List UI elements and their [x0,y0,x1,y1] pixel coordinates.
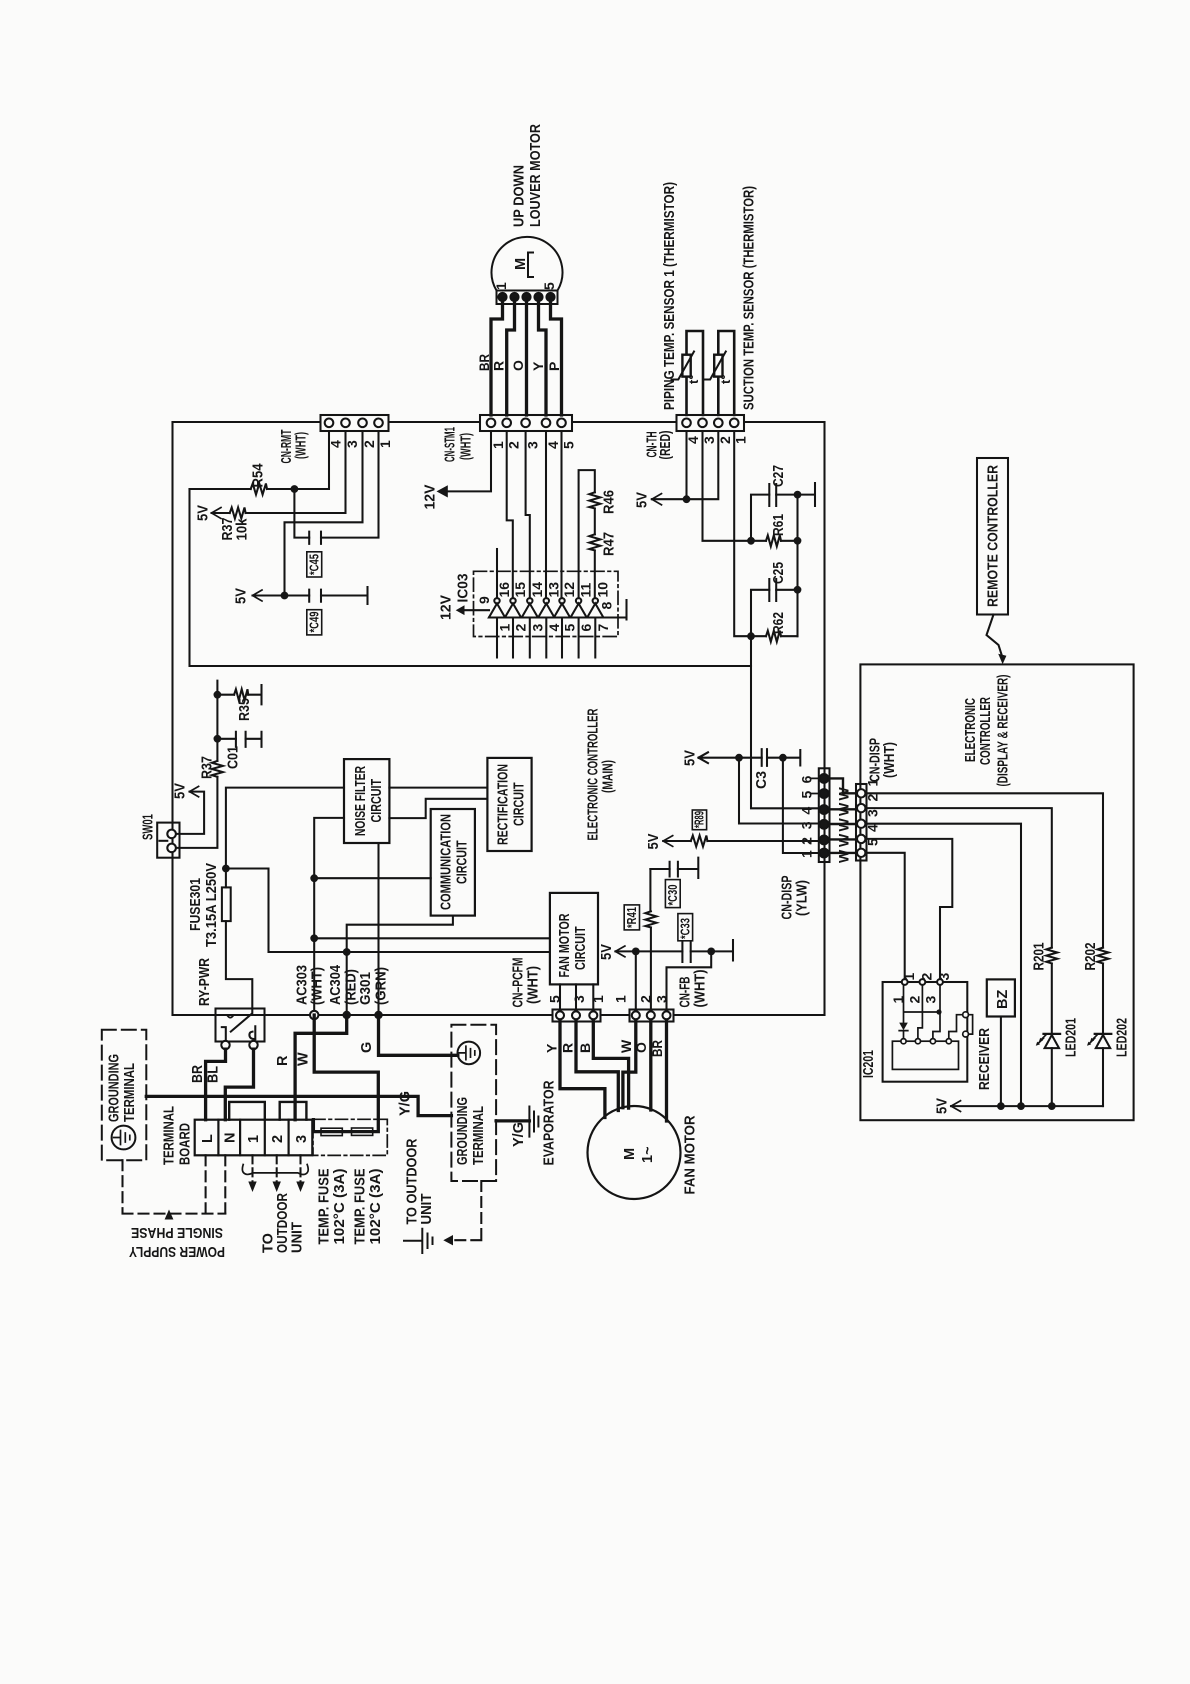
svg-text:1: 1 [493,282,509,290]
wire C33 to CN-FB pin3 [691,940,733,961]
svg-text:C01: C01 [226,746,242,769]
svg-text:1: 1 [890,996,906,1004]
svg-text:3: 3 [344,440,360,448]
connector CN-STM1 (WHT) [480,415,572,431]
svg-text:IC03: IC03 [456,574,472,603]
svg-text:AC304: AC304 [328,965,344,1005]
suction temp thermistor element [703,331,734,415]
wire Y/G evaporator [496,1119,529,1122]
svg-text:3: 3 [798,821,814,829]
svg-text:R62: R62 [771,612,787,634]
resistor R46 [589,492,600,508]
resistor R89 [691,836,708,847]
svg-text:BR: BR [649,1040,665,1057]
svg-text:2: 2 [270,1135,286,1143]
svg-text:W: W [618,1039,634,1053]
svg-text:*C45: *C45 [307,554,322,575]
wire CN-TH pin1 to R62 [734,431,751,636]
svg-text:L: L [200,1134,216,1143]
svg-text:IC201: IC201 [861,1050,877,1078]
buzzer BZ box [987,979,1015,1016]
terminal board box [195,1120,313,1156]
svg-text:*R89: *R89 [692,811,707,828]
svg-text:10k: 10k [235,518,251,541]
wire G301 noise filter [377,843,379,1011]
svg-text:AC303: AC303 [295,965,311,1005]
wire Y/G [146,1096,451,1115]
fan motor lead B [593,1022,628,1109]
wire AC304 communication circuit [347,916,453,1011]
svg-text:2: 2 [638,995,654,1003]
wire AC303 to communication circuit [314,877,431,879]
svg-text:C25: C25 [771,562,787,584]
wire WHT pin4 to IC201 pin3 [867,839,953,979]
svg-text:3: 3 [529,624,545,632]
wire C3 5V net to YLW pin3 [699,752,762,763]
temp fuse 2 [352,1128,373,1135]
svg-text:5: 5 [562,624,578,632]
wire WHT pin3 to 5V rail [867,824,1022,1106]
svg-text:7: 7 [595,624,611,632]
svg-text:POWER SUPPLY: POWER SUPPLY [129,1243,225,1259]
svg-text:O: O [510,360,526,371]
fan motor lead Y [560,1022,605,1118]
svg-text:B: B [577,1043,593,1053]
svg-text:1: 1 [798,850,814,858]
IC201 box [883,979,968,1082]
display 5V rail [951,1105,1103,1107]
wire G G301 to grounding terminal [379,1015,458,1055]
svg-text:6: 6 [578,624,594,632]
svg-text:1: 1 [490,441,506,449]
svg-text:(WHT): (WHT) [526,966,542,1004]
svg-text:BOARD: BOARD [178,1123,194,1165]
wire CN-STM1 pin5 to IC03 pin12 [560,431,563,598]
fuse FUSE301 [222,887,231,921]
svg-text:C27: C27 [771,465,787,487]
svg-text:4: 4 [546,624,562,632]
switch SW01 [157,823,179,858]
svg-text:CIRCUIT: CIRCUIT [573,926,589,970]
terminal outdoor arrows [253,1155,301,1183]
svg-text:2: 2 [907,996,923,1004]
svg-text:(MAIN): (MAIN) [601,760,617,793]
svg-text:O: O [633,1042,649,1053]
grounding terminal dashed box left [102,1030,147,1160]
label *C49 [307,610,322,635]
connector CN-TH (RED) [677,415,745,431]
main controller board outline left edge [171,422,173,1015]
svg-text:*C49: *C49 [307,612,322,633]
svg-text:2: 2 [717,436,733,444]
svg-text:CONTROLLER: CONTROLLER [978,697,994,765]
svg-text:5: 5 [541,282,557,290]
terminal strap N-1 [229,1102,265,1120]
louver motor wires BR R O Y P [491,299,562,415]
svg-text:Y: Y [544,1043,560,1053]
svg-text:W: W [836,802,852,816]
svg-text:15: 15 [512,582,528,598]
svg-text:13: 13 [546,582,562,598]
svg-text:R47: R47 [602,532,618,556]
svg-text:G: G [359,1042,375,1053]
svg-text:UNIT: UNIT [419,1193,435,1224]
svg-text:R37: R37 [200,756,216,779]
label *R89 [692,810,706,830]
svg-text:GROUNDING: GROUNDING [107,1054,123,1122]
svg-text:W: W [836,818,852,832]
connector CN-DISP (YLW) [819,768,830,862]
svg-text:W: W [836,787,852,801]
svg-text:4: 4 [685,436,701,444]
svg-text:FUSE301: FUSE301 [188,878,204,931]
svg-text:CN-STM1: CN-STM1 [443,427,459,462]
svg-text:R201: R201 [1032,943,1048,971]
svg-text:1: 1 [733,436,749,444]
svg-text:TERMINAL: TERMINAL [122,1063,138,1122]
grounding terminal symbol left [112,1126,136,1150]
capacitor C25 [769,579,776,601]
svg-text:8: 8 [599,602,615,610]
svg-text:4: 4 [798,807,814,815]
svg-text:C3: C3 [754,771,770,789]
svg-text:UP DOWN: UP DOWN [512,165,528,227]
piping temp thermistor element [672,331,704,415]
svg-text:RECEIVER: RECEIVER [977,1028,993,1090]
capacitor C49 [309,590,321,602]
svg-text:SUCTION TEMP. SENSOR (THERMIST: SUCTION TEMP. SENSOR (THERMISTOR) [742,186,758,410]
svg-text:4: 4 [865,824,881,832]
wire noise filter to rectification jog [389,799,487,818]
resistor R37 lower [212,761,223,777]
svg-text:(WHT): (WHT) [693,969,709,1007]
svg-text:5V: 5V [635,492,651,508]
label *C33 [678,914,693,941]
svg-text:9: 9 [476,596,492,604]
wire WHT pin1 to R202 LED202 [867,793,1104,1106]
resistor R54 [251,484,267,495]
wire CN-FB pin1 to 5V [615,951,682,1009]
svg-text:3: 3 [701,436,717,444]
svg-text:FAN MOTOR: FAN MOTOR [683,1115,699,1194]
connector CN-FB (WHT) [630,1010,674,1022]
svg-text:BL: BL [206,1066,222,1083]
svg-text:2: 2 [506,441,522,449]
svg-text:12V: 12V [439,595,455,620]
svg-text:5: 5 [547,995,563,1003]
IC03 dash-dot box [474,571,619,636]
wire C3 right to YLW pin1 [767,750,800,766]
svg-text:LOUVER MOTOR: LOUVER MOTOR [528,124,544,227]
wire node line down to CN-DISP YLW pin4 [751,636,819,808]
remote controller arrow [987,615,1002,655]
wire WHT pin5 to IC201 pin1 [867,853,905,979]
up-down louver motor M [491,237,562,304]
svg-text:*R41: *R41 [624,907,639,928]
svg-text:5V: 5V [935,1098,951,1114]
label *R41 [624,905,639,930]
wire BZ to 5V rail [1000,1017,1002,1107]
svg-text:4: 4 [328,440,344,448]
LED202 [1087,1034,1111,1048]
main controller board outline right edge [823,422,825,1015]
svg-text:5V: 5V [646,833,662,849]
svg-text:M: M [622,1148,638,1160]
svg-text:R: R [275,1055,291,1066]
svg-text:16: 16 [496,582,512,598]
wire AC303 to fan motor circuit [314,937,550,939]
temp fuse dash-dot box [313,1119,387,1155]
svg-text:SW01: SW01 [141,814,157,840]
svg-text:CN-DISP: CN-DISP [780,875,796,919]
svg-text:1: 1 [613,995,629,1003]
svg-text:TEMP. FUSE: TEMP. FUSE [353,1168,369,1244]
label *C45 [307,552,322,577]
svg-text:(WHT): (WHT) [310,967,326,1005]
svg-text:GROUNDING: GROUNDING [455,1097,471,1165]
svg-text:1: 1 [865,779,881,787]
capacitor C3 [762,749,767,766]
label *C30 [665,880,680,908]
svg-text:TEMP. FUSE: TEMP. FUSE [317,1168,333,1244]
IC201 internal diode [899,985,963,1039]
svg-text:5V: 5V [234,588,250,604]
resistor R201 [1046,948,1057,964]
svg-text:6: 6 [798,775,814,783]
noise filter circuit box [344,759,389,843]
svg-text:1: 1 [901,973,917,981]
svg-text:M: M [513,258,529,270]
relay RY-PWR contact box [216,1009,265,1050]
resistor R37 10k [230,508,246,519]
evaporator ground symbol [529,1107,538,1137]
svg-text:COMMUNICATION: COMMUNICATION [439,814,455,910]
svg-text:2: 2 [919,973,935,981]
connector CN-PCFM (WHT) [553,1010,601,1022]
wire fuse net to noise filter [226,788,344,1009]
wire W AC303 through temp fuses [313,1015,378,1132]
IC03 inverter array [489,598,604,617]
fan motor M [588,1106,681,1199]
svg-text:REMOTE CONTROLLER: REMOTE CONTROLLER [986,465,1002,607]
svg-text:12V: 12V [423,484,439,509]
svg-text:CIRCUIT: CIRCUIT [512,782,528,826]
fan motor lead O [649,1022,652,1111]
fan motor lead BR [665,1022,668,1122]
svg-text:CIRCUIT: CIRCUIT [455,840,471,884]
svg-text:3: 3 [525,441,541,449]
wire SW01 pin1 to 5V [176,792,204,834]
svg-text:R202: R202 [1083,943,1099,971]
svg-text:5V: 5V [196,505,212,521]
wire CN-STM1 pin1 to 12V [448,431,492,491]
svg-text:(RED): (RED) [658,430,674,459]
wire R89 to CN-DISP YLW pin2 [663,840,819,842]
wire R35 C01 R37 chain [217,681,261,761]
IC03 input stubs pins 1-7 [497,618,595,658]
resistor R41 [645,911,656,927]
svg-text:1: 1 [497,624,513,632]
wire relay BL to terminal N [225,1049,253,1120]
svg-text:W: W [296,1052,312,1066]
svg-text:*C33: *C33 [678,918,693,939]
grounding terminal dashed to outdoor [453,1181,482,1240]
rectification circuit box [487,758,531,851]
svg-text:EVAPORATOR: EVAPORATOR [542,1080,558,1165]
svg-text:CIRCUIT: CIRCUIT [369,779,385,823]
svg-text:P: P [546,362,562,371]
IC201 right edge pins + bracket [963,1012,973,1037]
svg-text:1: 1 [590,995,606,1003]
fan motor lead R [576,1022,618,1111]
remote controller box [977,458,1008,615]
svg-text:T3.15A L250V: T3.15A L250V [204,863,220,947]
wire CN-TH pin4 pin2 5V [652,431,719,499]
svg-text:R54: R54 [251,464,267,488]
svg-text:3: 3 [865,809,881,817]
cable bundle bracket [242,1165,308,1175]
svg-text:102°C (3A): 102°C (3A) [368,1168,384,1244]
wire YLW pin6 to WHT pin1 [830,778,857,793]
capacitor C30 leads [650,858,698,878]
svg-text:5: 5 [798,791,814,799]
svg-text:5V: 5V [173,783,189,799]
terminal strap 2-3 [280,1102,307,1120]
svg-text:SINGLE PHASE: SINGLE PHASE [131,1224,223,1240]
YLW pin5 pin6 stubs [811,778,819,793]
wires YLW to WHT straight [830,809,857,853]
svg-text:(WHT): (WHT) [882,742,898,778]
wire relay BR to terminal L [206,1049,226,1120]
wire CN-STM1 pin4 to IC03 pin13 [545,431,547,598]
fan motor lead W [623,1022,636,1108]
capacitor C01 [236,732,246,747]
power supply dashed wires [123,1155,226,1213]
wire WHT pin2 to R201 LED201 [867,808,1052,1106]
svg-text:5V: 5V [683,750,699,766]
wire R54 loop to node line [190,489,752,666]
IC03 pin8 ground stub [604,600,627,620]
svg-text:LED201: LED201 [1064,1018,1080,1057]
resistor R62 [766,631,781,642]
svg-text:102°C (3A): 102°C (3A) [332,1168,348,1244]
wire CN-TH pin3 to R61 [703,431,752,541]
wire R37 to 5V [212,431,346,513]
resistor R47 [589,534,600,550]
svg-text:3: 3 [571,995,587,1003]
svg-text:t°: t° [686,374,701,384]
svg-text:2: 2 [361,440,377,448]
svg-text:R: R [560,1043,576,1053]
wire IC03 pin16 stub [496,549,498,598]
svg-text:(GRN): (GRN) [374,967,390,1005]
wire CN-STM1 pin3 to IC03 pin14 [526,431,530,598]
capacitor C45 [309,532,321,544]
IC201 inner receiver element box [892,1039,958,1070]
svg-text:2: 2 [513,624,529,632]
svg-text:10: 10 [595,582,611,598]
svg-text:4: 4 [545,441,561,449]
svg-text:FAN MOTOR: FAN MOTOR [557,913,573,977]
svg-text:N: N [223,1133,239,1143]
svg-text:Y/G: Y/G [398,1091,414,1116]
svg-text:2: 2 [865,794,881,802]
wire CN-RMT pin2 to C49 [285,431,363,596]
svg-text:5: 5 [865,838,881,846]
wire R54 net [190,431,330,489]
display board outline [860,664,1133,1120]
wire R AC304 to terminal 3 [295,1015,347,1120]
svg-text:2: 2 [798,837,814,845]
svg-text:(WHT): (WHT) [459,433,475,460]
capacitor C30 [670,862,678,877]
svg-text:Y: Y [530,361,546,371]
grounding terminal dashed box right [451,1025,496,1181]
svg-text:W: W [836,849,852,863]
fan motor circuit box [550,893,598,985]
wire AC303 vertical [314,818,344,1011]
svg-text:TERMINAL: TERMINAL [471,1106,487,1165]
svg-text:1: 1 [377,440,393,448]
IC03 pin9 12V arrow [464,609,489,611]
svg-text:UNIT: UNIT [290,1222,306,1253]
svg-text:CN-FB: CN-FB [678,977,694,1008]
svg-text:3: 3 [936,973,952,981]
wire noise filter to rectification [389,787,487,789]
thermistor filter network wires [751,483,815,541]
svg-text:3: 3 [653,995,669,1003]
svg-text:RECTIFICATION: RECTIFICATION [496,764,512,845]
svg-text:CN–PCFM: CN–PCFM [511,958,527,1008]
svg-text:G301: G301 [358,972,374,1005]
svg-text:LED202: LED202 [1115,1018,1131,1057]
svg-text:3: 3 [923,996,939,1004]
svg-text:ELECTRONIC: ELECTRONIC [963,698,979,762]
svg-text:5V: 5V [599,944,615,960]
connector CN-DISP (WHT) [856,784,867,861]
svg-text:1~: 1~ [640,1146,656,1163]
wire IC03 pin11 to R46 R47 to pin10 [579,470,595,598]
svg-text:14: 14 [529,582,545,598]
svg-text:(WHT): (WHT) [294,432,310,459]
svg-text:5: 5 [561,441,577,449]
svg-text:ELECTRONIC CONTROLLER: ELECTRONIC CONTROLLER [586,708,602,840]
svg-text:11: 11 [578,582,594,597]
svg-text:t°: t° [718,374,733,384]
resistor R35 [234,689,248,700]
wire R41 chain CN-FB pin2 [649,869,652,1010]
svg-text:(YLW): (YLW) [795,880,811,916]
svg-text:TERMINAL: TERMINAL [162,1106,178,1165]
LED201 [1036,1034,1060,1048]
svg-text:Y/G: Y/G [511,1122,527,1147]
resistor R61 [766,535,781,546]
svg-text:3: 3 [294,1135,310,1143]
svg-text:(DISPLAY & RECEIVER): (DISPLAY & RECEIVER) [996,674,1012,786]
svg-text:12: 12 [561,582,577,598]
connector CN-RMT (WHT) [321,415,389,431]
svg-text:W: W [836,833,852,847]
svg-text:RY-PWR: RY-PWR [197,958,213,1006]
resistor R202 [1098,948,1109,964]
svg-text:R46: R46 [602,490,618,514]
grounding terminal symbol right [458,1042,481,1065]
svg-text:R35: R35 [237,698,253,721]
svg-text:1: 1 [246,1135,262,1143]
main controller board outline bottom edge [173,1014,825,1016]
capacitor C27 [769,484,776,506]
wire CN-STM1 pin2 to IC03 pin15 [507,431,513,598]
